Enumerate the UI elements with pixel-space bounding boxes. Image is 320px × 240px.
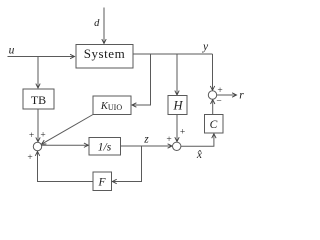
wire z branch down to F [112,146,141,182]
wire TB to sum S1 [37,109,39,142]
svg-text:C: C [210,119,218,131]
wire d input [103,8,105,44]
block KUIO [93,96,131,115]
wire y branch to KUIO [132,54,151,105]
wire KUIO to sum S1 diagonal [42,115,94,145]
summing junction S3 [208,91,216,99]
block C [205,115,224,134]
wire C to sum S3 [212,100,214,115]
svg-text:+: + [29,131,34,141]
svg-text:+: + [27,153,32,163]
svg-text:z: z [143,134,149,146]
svg-text:F: F [97,176,106,188]
wire y branch to H [176,54,178,95]
svg-text:+: + [166,135,171,145]
svg-text:d: d [94,18,100,29]
svg-text:x̂: x̂ [196,149,203,161]
svg-text:+: + [180,128,185,138]
wire u branch to TB [37,57,39,89]
wire F feedback to S1 [38,151,94,181]
svg-text:r: r [239,90,244,102]
svg-text:u: u [9,45,15,57]
svg-text:TB: TB [31,93,46,107]
block 1/s [89,138,121,156]
svg-text:+: + [40,131,45,141]
svg-text:System: System [84,46,126,61]
svg-text:H: H [172,98,183,112]
svg-text:KUIO: KUIO [100,101,122,112]
block F [93,172,112,191]
wire y output line [133,53,213,55]
wire S3 output r [217,94,237,96]
svg-text:1/s: 1/s [98,141,112,153]
block System [76,45,133,69]
wire S1 to 1/s [42,144,89,146]
wire S2 to C (xhat) [181,134,214,147]
svg-text:y: y [202,41,209,53]
summing junction S2 [173,142,181,150]
wire 1/s to sum S2 (z) [121,145,173,147]
svg-text:−: − [216,97,221,107]
block H [168,96,187,115]
svg-text:+: + [217,86,222,96]
block TB [23,89,54,109]
wire u input [8,56,75,58]
wire y down to sum S3 [212,54,214,90]
summing junction S1 [33,142,41,150]
wire H to sum S2 [176,115,178,142]
